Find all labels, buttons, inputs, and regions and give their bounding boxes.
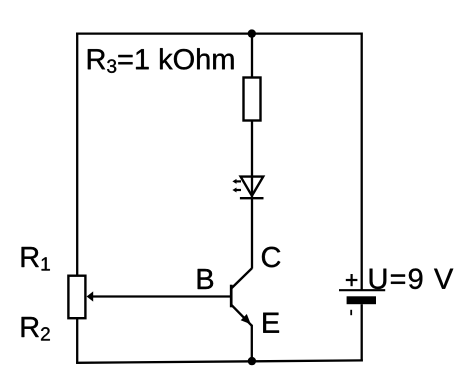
wire middle branch: [251, 34, 253, 269]
label R1: [22, 247, 50, 271]
wire bottom rail: [76, 360, 363, 362]
battery U1: [339, 274, 385, 315]
transistor Q1: [231, 268, 252, 326]
wire top rail: [76, 32, 363, 34]
resistor R3: [244, 78, 261, 121]
label E: [263, 313, 279, 333]
label B: [198, 269, 213, 289]
label U=9 V: [370, 269, 454, 290]
LED D1: [232, 177, 263, 199]
label C: [262, 247, 280, 267]
wire base wire from wiper to transistor base: [92, 295, 231, 297]
label R2: [22, 317, 50, 341]
node emitter junction: [248, 357, 256, 365]
wiper arrowhead: [87, 291, 94, 301]
battery negative plate: [347, 296, 376, 304]
potentiometer R1 R2: [68, 276, 231, 319]
label R3=1 kOhm: [88, 48, 234, 73]
node top junction: [248, 29, 256, 37]
wire right rail upper: [361, 33, 363, 291]
wire emitter to bottom rail: [251, 325, 253, 362]
wire right rail lower: [361, 304, 363, 361]
wire left rail: [76, 33, 78, 364]
battery positive plate: [339, 289, 385, 291]
minus tick: [350, 310, 352, 315]
plus sign: [346, 279, 358, 281]
